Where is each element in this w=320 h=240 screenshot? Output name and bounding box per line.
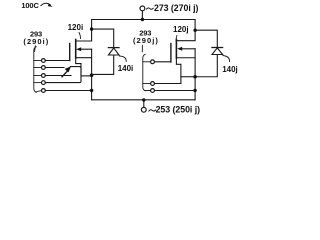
- svg-text:253 (250i j): 253 (250i j): [156, 105, 201, 115]
- svg-text:140j: 140j: [222, 65, 238, 74]
- svg-text:140i: 140i: [118, 64, 134, 73]
- svg-text:120j: 120j: [173, 25, 189, 34]
- svg-text:273 (270i j): 273 (270i j): [154, 3, 199, 13]
- svg-text:(290i): (290i): [23, 37, 49, 46]
- svg-text:(290j): (290j): [133, 36, 159, 45]
- svg-text:120i: 120i: [68, 23, 84, 32]
- svg-text:100C: 100C: [21, 1, 39, 10]
